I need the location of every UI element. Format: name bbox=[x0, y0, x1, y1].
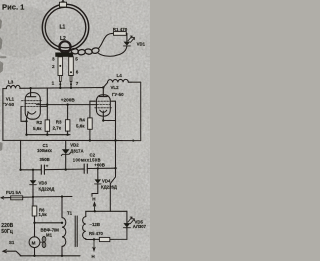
wire loop up to R1 bbox=[98, 33, 113, 48]
LED VD5 bbox=[126, 211, 128, 239]
transformer T1 secondary bbox=[85, 211, 87, 216]
label L2 bbox=[60, 36, 66, 42]
label VD4 bbox=[102, 179, 111, 184]
mains bus to T1 bbox=[33, 196, 72, 198]
resistor R4 bbox=[89, 101, 91, 118]
wire motor node to T1 primary bbox=[35, 222, 63, 224]
main 0V bus bbox=[3, 139, 141, 141]
svg-text:R3: R3 bbox=[56, 119, 62, 124]
label Н bottom bbox=[92, 254, 95, 259]
svg-text:КД226Д: КД226Д bbox=[101, 185, 117, 190]
wire VD1 back to loop bbox=[99, 46, 127, 56]
grid feed vertical bbox=[46, 88, 48, 120]
edge smudges bbox=[0, 19, 7, 151]
svg-text:–12В: –12В bbox=[90, 222, 101, 227]
label М1 bbox=[46, 233, 53, 238]
svg-text:7: 7 bbox=[76, 81, 79, 86]
cathode bus bbox=[27, 134, 71, 136]
label VD5 bbox=[135, 219, 144, 224]
title Рис. 1 bbox=[2, 3, 25, 12]
pin number 2 bbox=[52, 64, 55, 69]
junction bbox=[46, 103, 48, 105]
tube VL2 envelope bbox=[96, 95, 110, 116]
label +200В bbox=[61, 97, 76, 102]
label R1 470 bbox=[113, 27, 128, 32]
svg-text:6: 6 bbox=[76, 69, 79, 74]
VL1 anode bbox=[27, 88, 36, 97]
svg-text:5,6к: 5,6к bbox=[76, 123, 85, 128]
svg-text:+60В: +60В bbox=[94, 162, 105, 167]
wire R1 to VD1 bbox=[125, 33, 128, 41]
VL1 grid 2 bbox=[26, 103, 41, 105]
pin number 5 bbox=[75, 57, 78, 62]
fuse FU1 bbox=[6, 190, 22, 195]
svg-text:5,6к: 5,6к bbox=[33, 126, 42, 131]
label VL2 bbox=[111, 85, 120, 90]
svg-text:VL1: VL1 bbox=[6, 96, 15, 101]
label 220В 50Гц bbox=[1, 223, 13, 229]
label КД226Д VD4 bbox=[101, 185, 117, 190]
wire pin1 to anode bus bbox=[59, 81, 61, 87]
svg-text:100мкх: 100мкх bbox=[37, 148, 52, 153]
svg-text:Н: Н bbox=[92, 197, 95, 202]
label Д817А bbox=[70, 148, 83, 153]
resistor R6 bbox=[33, 197, 35, 206]
resistor R5 bbox=[110, 238, 127, 240]
transformer core bbox=[75, 216, 77, 247]
pin number 6 bbox=[76, 69, 79, 74]
label L4 bbox=[117, 73, 123, 78]
svg-text:5: 5 bbox=[75, 57, 78, 62]
connector pin left (socket) bbox=[58, 57, 63, 76]
VL2 grid 2 bbox=[97, 104, 110, 106]
svg-text:350В: 350В bbox=[40, 157, 50, 162]
svg-text:Н: Н bbox=[92, 254, 95, 259]
trimmer box at top of loop bbox=[60, 2, 67, 7]
svg-text:VD4: VD4 bbox=[102, 179, 111, 184]
LED VD1 bbox=[124, 42, 131, 46]
right wire L4 down bbox=[140, 82, 142, 140]
label ВВФ-71М bbox=[41, 227, 60, 232]
label +60В bbox=[94, 162, 105, 167]
svg-text:R5 470: R5 470 bbox=[89, 231, 103, 236]
label ГУ-50 VL2 bbox=[112, 92, 124, 97]
wire L3 to VL2 anode bbox=[20, 87, 104, 90]
tube VL1 envelope bbox=[25, 93, 40, 120]
svg-text:2: 2 bbox=[52, 64, 55, 69]
label VD1 bbox=[137, 41, 146, 46]
coil form black bar bbox=[55, 53, 73, 57]
wire pin7 to anode bus bbox=[70, 81, 72, 87]
junction pin7 bbox=[70, 87, 72, 89]
junction pin1 bbox=[59, 87, 61, 89]
anode bus wire bbox=[3, 88, 7, 90]
wire from VD4 node down to rail bbox=[110, 168, 115, 211]
svg-text:2,7к: 2,7к bbox=[53, 126, 62, 131]
secondary top rail bbox=[86, 210, 127, 212]
VL1 cathode lead bbox=[27, 112, 29, 134]
svg-text:ГУ-50: ГУ-50 bbox=[112, 92, 124, 97]
svg-text:L1: L1 bbox=[60, 25, 66, 31]
svg-text:VL2: VL2 bbox=[111, 85, 120, 90]
label L3 bbox=[8, 79, 14, 84]
+200V bus bbox=[36, 104, 96, 106]
connector pin right (socket) bbox=[69, 57, 74, 76]
label ГУ-50 bbox=[2, 102, 14, 107]
svg-text:3: 3 bbox=[52, 57, 55, 62]
VL1 grid 1 bbox=[22, 100, 43, 102]
arrow above box bbox=[62, 0, 64, 2]
pin number 7 bbox=[76, 81, 79, 86]
VL2 cathode bbox=[100, 110, 107, 112]
wire C1 row bbox=[21, 168, 85, 171]
junction bbox=[66, 103, 68, 105]
capacitor C2 bbox=[90, 153, 96, 158]
transformer T1 primary bbox=[61, 197, 63, 218]
pin number 1 bbox=[52, 80, 55, 85]
fan blades bbox=[42, 237, 46, 242]
svg-text:VD3: VD3 bbox=[39, 181, 48, 186]
left supply wire bbox=[2, 89, 4, 141]
svg-text:КД226Д: КД226Д bbox=[39, 187, 55, 192]
svg-text:L3: L3 bbox=[8, 79, 14, 84]
svg-text:FU1 5А: FU1 5А bbox=[6, 190, 22, 195]
svg-text:+200В: +200В bbox=[61, 97, 76, 102]
svg-text:Т1: Т1 bbox=[67, 210, 73, 215]
label VD3 bbox=[39, 181, 48, 186]
diode VD4 bbox=[97, 168, 99, 179]
label L1 bbox=[60, 25, 66, 31]
coil L3 bbox=[6, 85, 20, 88]
junction VL2 anode bbox=[102, 86, 104, 88]
VL2 anode bbox=[100, 88, 108, 97]
VL2 cathode lead bbox=[103, 111, 115, 168]
tonal patches bbox=[0, 6, 156, 261]
svg-text:1,5к: 1,5к bbox=[39, 212, 48, 217]
VL1 grid lead to feed bbox=[40, 105, 47, 107]
coil L4 bbox=[103, 79, 140, 87]
svg-text:R2: R2 bbox=[36, 120, 42, 125]
svg-text:R4: R4 bbox=[79, 118, 85, 123]
svg-text:220В: 220В bbox=[1, 223, 13, 229]
contact dot pin 6 bbox=[70, 71, 72, 73]
resistor R3 bbox=[67, 105, 69, 120]
twisted feeder loops bbox=[71, 48, 79, 55]
svg-text:+: + bbox=[46, 164, 49, 169]
coupling coil L2 (small circle) bbox=[59, 41, 70, 52]
label КД226Д bbox=[39, 187, 55, 192]
label АЛ307 bbox=[133, 224, 147, 229]
VL2 grid to cathode link bbox=[112, 101, 116, 120]
label Т1 bbox=[67, 210, 73, 215]
contact dot pin 2 bbox=[59, 65, 61, 67]
VL1 cathode bbox=[28, 112, 36, 115]
branch up to 0V bus bbox=[20, 140, 22, 169]
paper background bbox=[0, 0, 150, 261]
loop antenna L1 (large double circle) bbox=[42, 4, 88, 50]
resistor R1 bbox=[114, 32, 127, 36]
VL1 grid 3 bbox=[22, 105, 41, 107]
VL2 grid lead bbox=[90, 100, 95, 102]
svg-text:М1: М1 bbox=[46, 233, 53, 238]
svg-text:1: 1 bbox=[52, 80, 55, 85]
svg-text:Д817А: Д817А bbox=[70, 148, 83, 153]
svg-text:VD2: VD2 bbox=[70, 142, 79, 147]
label -12В bbox=[90, 222, 101, 227]
label VD2 bbox=[70, 142, 79, 147]
heater arrow up bbox=[93, 202, 96, 211]
diode VD3 bbox=[32, 170, 34, 180]
label S1 bbox=[9, 240, 15, 245]
svg-text:L4: L4 bbox=[117, 73, 123, 78]
heater arrow down bottom bbox=[93, 239, 95, 250]
switch S1 bbox=[4, 251, 22, 256]
pin number 3 bbox=[52, 57, 55, 62]
svg-text:VD1: VD1 bbox=[137, 41, 146, 46]
svg-text:АЛ307: АЛ307 bbox=[133, 224, 147, 229]
label Н bbox=[92, 197, 95, 202]
resistor R2 bbox=[45, 120, 50, 131]
capacitor C1 bbox=[41, 165, 44, 174]
capacitor C1 labels bbox=[43, 143, 49, 148]
motor M1 bbox=[29, 237, 40, 248]
VL2 grid 3 bbox=[95, 107, 112, 109]
svg-text:ГУ-50: ГУ-50 bbox=[2, 102, 14, 107]
label VL1 bbox=[6, 96, 15, 101]
svg-text:R1 470: R1 470 bbox=[113, 27, 128, 32]
zener VD2 bbox=[65, 141, 67, 150]
VL2 grid 1 bbox=[95, 100, 112, 102]
junction VL1 anode bbox=[29, 87, 31, 89]
bottom bus bbox=[20, 255, 80, 257]
